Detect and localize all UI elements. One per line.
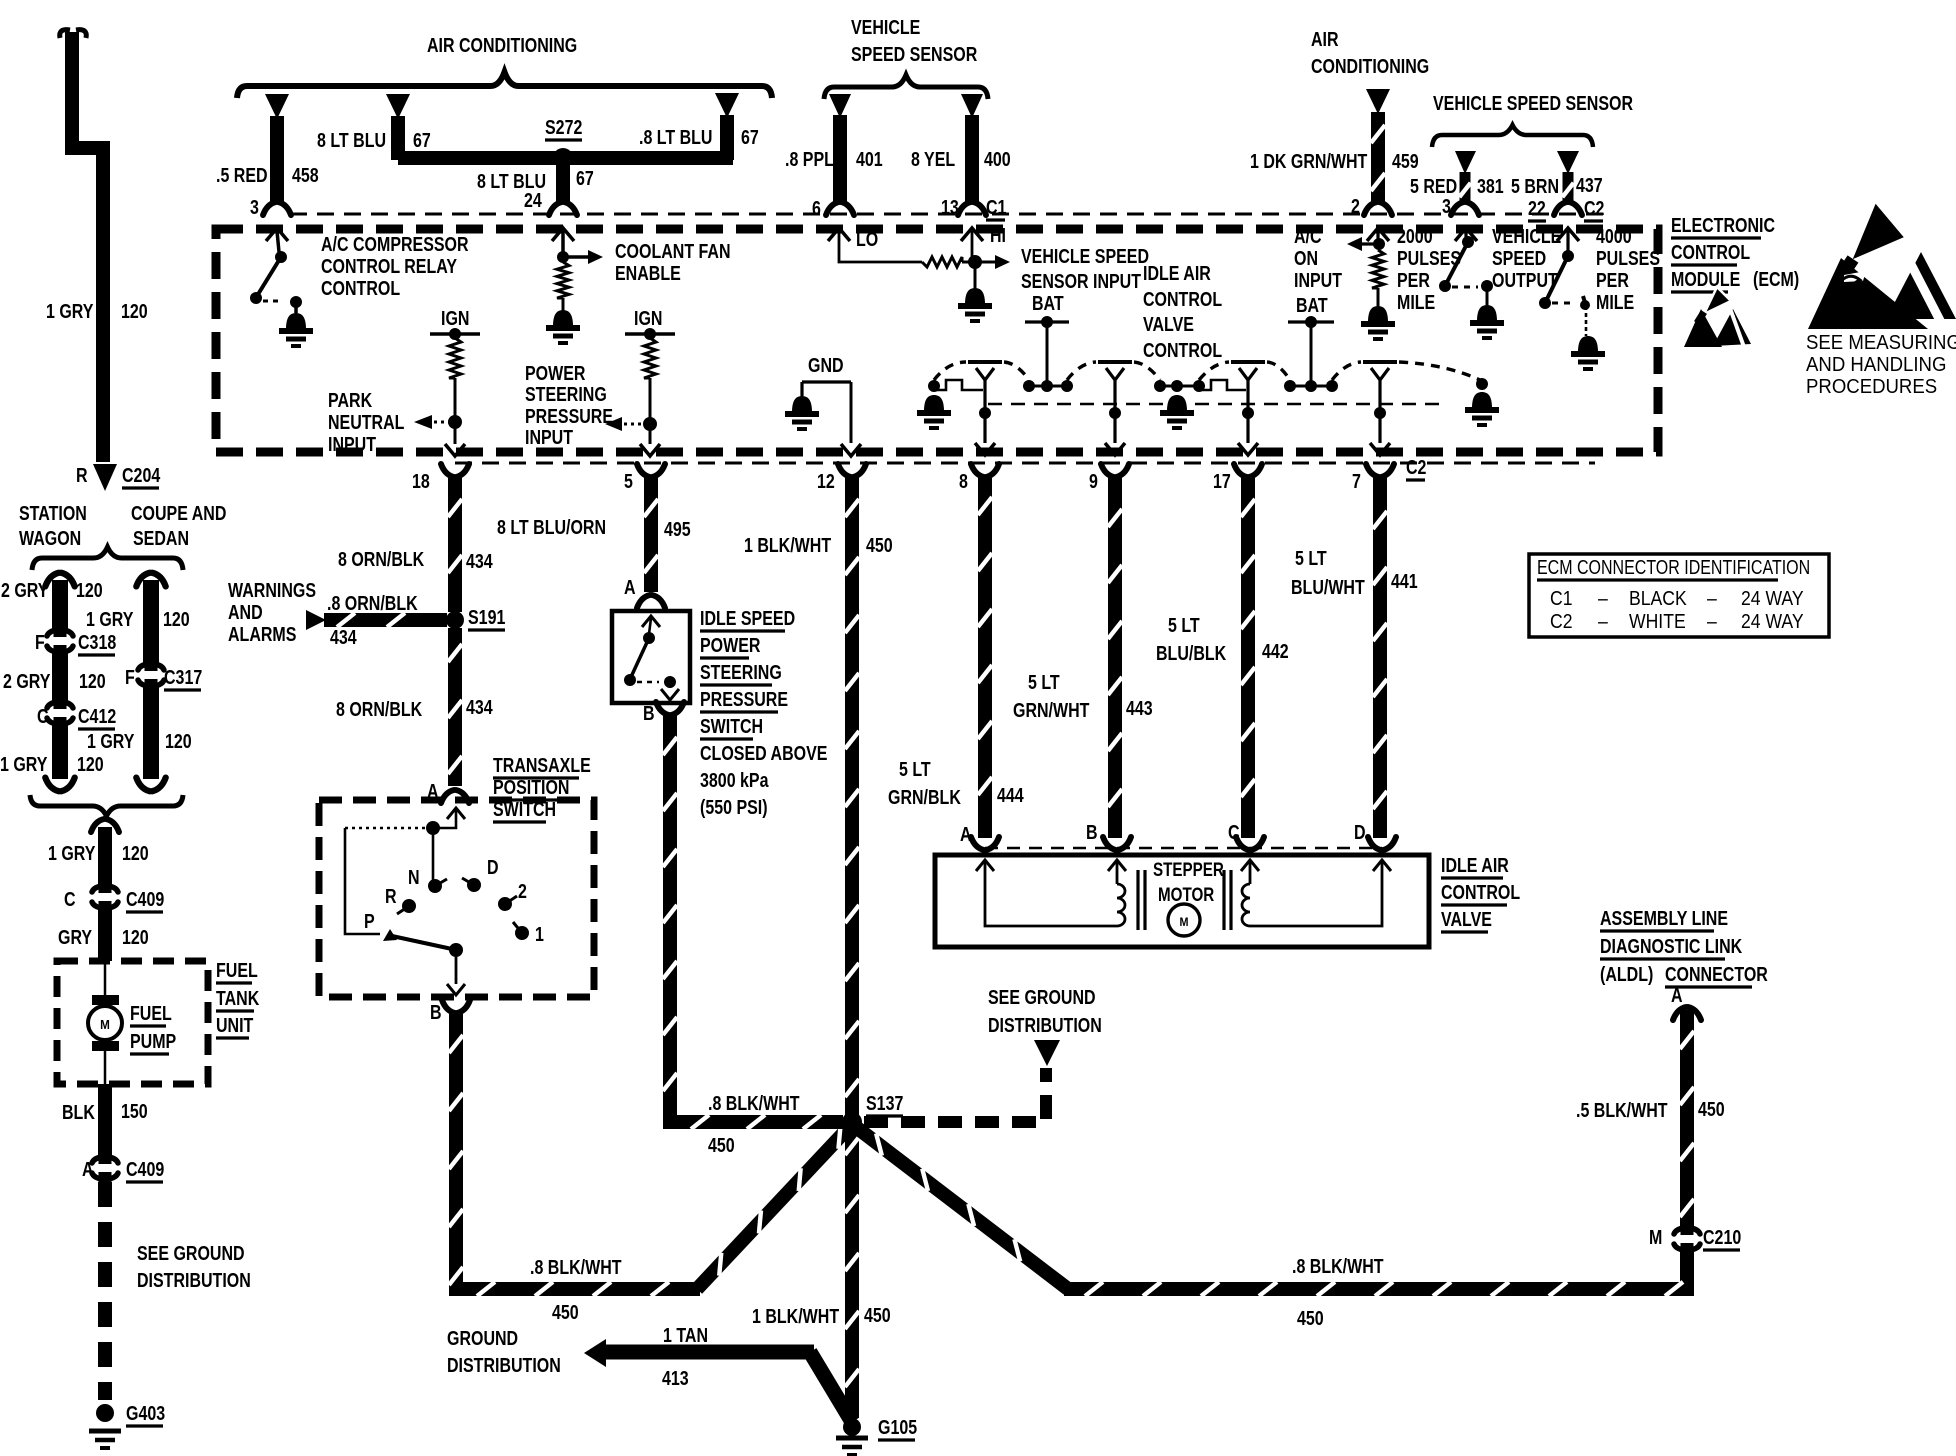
label WARNINGS AND ALARMS	[228, 579, 316, 645]
svg-text:BAT: BAT	[1296, 294, 1328, 316]
wire 1 GRY 120 below C317	[87, 686, 192, 791]
svg-text:VEHICLE: VEHICLE	[1492, 225, 1561, 247]
svg-text:120: 120	[122, 926, 149, 948]
svg-text:C2: C2	[1550, 610, 1572, 632]
svg-text:459: 459	[1392, 150, 1419, 172]
svg-text:120: 120	[79, 670, 106, 692]
svg-text:.8 LT BLU: .8 LT BLU	[639, 126, 712, 148]
label SEE MEASURING AND HANDLING PROCEDURES	[1806, 332, 1956, 398]
svg-text:SEDAN: SEDAN	[133, 527, 189, 549]
svg-text:18: 18	[412, 470, 430, 492]
ECM pin 9 connector	[1089, 464, 1129, 492]
ECM connector identification table	[1529, 554, 1829, 637]
ESD symbol large with hand	[1808, 200, 1956, 334]
pin 13 connector C1	[958, 196, 1006, 220]
svg-text:5: 5	[624, 470, 633, 492]
svg-text:(550 PSI): (550 PSI)	[700, 796, 768, 818]
svg-text:R: R	[385, 885, 397, 907]
wire 8 LT BLU 67 to pin 24	[477, 160, 594, 211]
svg-text:MILE: MILE	[1596, 291, 1634, 313]
svg-text:A: A	[1671, 984, 1683, 1006]
svg-text:PER: PER	[1596, 269, 1629, 291]
hatched wire 8 ORN/BLK 434 pin18 to S191	[338, 478, 493, 612]
svg-text:GRY: GRY	[58, 926, 92, 948]
label C2 at pin 7	[1406, 456, 1426, 480]
connector C412	[37, 698, 116, 729]
svg-text:8 YEL: 8 YEL	[911, 148, 955, 170]
svg-text:1 TAN: 1 TAN	[663, 1324, 708, 1346]
svg-text:OUTPUT: OUTPUT	[1492, 269, 1558, 291]
label POWER STEERING PRESSURE INPUT	[525, 362, 613, 448]
svg-text:TANK: TANK	[216, 987, 259, 1009]
svg-text:67: 67	[576, 167, 594, 189]
label FUEL PUMP	[130, 1002, 176, 1054]
svg-text:1 GRY: 1 GRY	[48, 842, 95, 864]
svg-text:LO: LO	[856, 228, 878, 250]
svg-text:CONTROL: CONTROL	[321, 277, 400, 299]
hatched wire .8 BLK/WHT 450 S137 to C210	[852, 1124, 1687, 1329]
svg-text:GROUND: GROUND	[447, 1327, 518, 1349]
svg-text:1: 1	[535, 923, 544, 945]
svg-text:.8 BLK/WHT: .8 BLK/WHT	[1292, 1255, 1384, 1277]
svg-text:IGN: IGN	[441, 307, 469, 329]
label VEHICLE SPEED SENSOR INPUT	[1021, 245, 1149, 292]
label A/C ON INPUT	[1294, 225, 1342, 291]
hatched wire 5 LT GRN/BLK 444	[888, 478, 1024, 838]
hatched wire .8 BLK/WHT 450 transaxle B to S137	[449, 1014, 852, 1323]
fuel tank unit dashed box	[57, 961, 208, 1084]
wire 1 TAN 413 to G105	[584, 1324, 852, 1422]
svg-text:CONTROL: CONTROL	[1143, 288, 1222, 310]
label IDLE AIR CONTROL VALVE	[1441, 854, 1520, 932]
svg-text:WHITE: WHITE	[1629, 610, 1686, 632]
label 1 GRY 120 upper coupe wire	[86, 608, 190, 630]
svg-text:ALARMS: ALARMS	[228, 623, 296, 645]
brace air conditioning	[237, 72, 772, 98]
svg-text:INPUT: INPUT	[328, 433, 376, 455]
svg-text:67: 67	[413, 129, 431, 151]
svg-text:UNIT: UNIT	[216, 1014, 253, 1036]
ALDL A connector	[1671, 984, 1701, 1020]
hatched wire .5 BLK/WHT 450 ALDL to C210	[1576, 1010, 1725, 1228]
svg-text:5 BRN: 5 BRN	[1511, 175, 1559, 197]
brace vehicle speed sensor right	[1432, 125, 1593, 147]
svg-text:.8 BLK/WHT: .8 BLK/WHT	[708, 1092, 800, 1114]
svg-text:IDLE AIR: IDLE AIR	[1441, 854, 1509, 876]
ECM pin 18 connector	[412, 464, 469, 492]
connector C210	[1649, 1224, 1741, 1254]
pin 3 connector C2 right	[1451, 202, 1479, 215]
svg-text:PROCEDURES: PROCEDURES	[1806, 376, 1937, 398]
wire 1 GRY 120 from top to C204	[46, 30, 148, 462]
hatched wire 5 LT GRN/WHT 443	[1013, 478, 1153, 838]
svg-text:MOTOR: MOTOR	[1158, 883, 1215, 905]
svg-text:C2: C2	[1584, 197, 1604, 219]
label AIR CONDITIONING right	[1311, 28, 1429, 77]
svg-text:VEHICLE SPEED: VEHICLE SPEED	[1021, 245, 1149, 267]
splice S191	[446, 606, 505, 630]
ECM connector face dashed line top	[290, 213, 1610, 216]
svg-text:SPEED: SPEED	[1492, 247, 1546, 269]
pin 24 connector	[549, 202, 577, 215]
svg-text:F: F	[35, 631, 45, 653]
stepper motor box	[935, 855, 1429, 947]
label COOLANT FAN ENABLE	[615, 240, 731, 284]
svg-text:4000: 4000	[1596, 225, 1632, 247]
svg-text:M: M	[100, 1017, 110, 1032]
svg-text:CLOSED ABOVE: CLOSED ABOVE	[700, 742, 827, 764]
svg-text:POSITION: POSITION	[493, 776, 569, 798]
svg-text:12: 12	[817, 470, 835, 492]
svg-text:434: 434	[330, 626, 357, 648]
arrow + wire .8 PPL 401	[785, 94, 883, 219]
svg-text:(ALDL): (ALDL)	[1600, 963, 1653, 985]
label SEE GROUND DISTRIBUTION left	[137, 1242, 251, 1291]
svg-text:3800 kPa: 3800 kPa	[700, 769, 769, 791]
svg-text:PRESSURE: PRESSURE	[700, 688, 788, 710]
svg-text:–: –	[1707, 587, 1717, 609]
hatched wire 5 LT BLU/WHT 441	[1291, 478, 1418, 838]
svg-text:–: –	[1598, 587, 1608, 609]
svg-text:120: 120	[165, 730, 192, 752]
svg-text:GRN/WHT: GRN/WHT	[1013, 699, 1089, 721]
svg-text:PULSES: PULSES	[1596, 247, 1660, 269]
ESD symbol small	[1684, 287, 1751, 347]
svg-text:8 ORN/BLK: 8 ORN/BLK	[336, 698, 422, 720]
svg-text:COUPE AND: COUPE AND	[131, 502, 226, 524]
A/C on input driver	[1347, 228, 1395, 339]
hatched wire .8 BLK/WHT 450 to S137	[663, 716, 843, 1156]
svg-text:413: 413	[662, 1367, 689, 1389]
svg-text:PRESSURE: PRESSURE	[525, 405, 613, 427]
svg-text:437: 437	[1576, 174, 1603, 196]
warnings and alarms arrow wire .8 ORN/BLK 434	[306, 592, 447, 648]
pin 22 connector C2	[1554, 197, 1604, 221]
hatched wire 8 ORN/BLK 434 S191 to transaxle A	[336, 628, 493, 786]
svg-text:22: 22	[1528, 197, 1546, 219]
IAC arc left end with bell ground	[917, 362, 983, 428]
svg-text:444: 444	[997, 784, 1024, 806]
label PARK NEUTRAL INPUT	[328, 389, 404, 455]
svg-text:1 BLK/WHT: 1 BLK/WHT	[744, 534, 831, 556]
svg-text:BLK: BLK	[62, 1101, 95, 1123]
svg-text:9: 9	[1089, 470, 1098, 492]
svg-text:C409: C409	[126, 888, 164, 910]
transaxle A connector	[427, 780, 469, 803]
svg-text:1 GRY: 1 GRY	[86, 608, 133, 630]
idle speed switch A connector	[624, 576, 665, 608]
IAC arc 17-7 with BAT	[1267, 294, 1361, 392]
svg-text:SEE MEASURING: SEE MEASURING	[1806, 332, 1956, 354]
svg-text:6: 6	[812, 197, 821, 219]
svg-text:GRN/BLK: GRN/BLK	[888, 786, 961, 808]
GND internal ground	[785, 354, 861, 456]
svg-text:AIR CONDITIONING: AIR CONDITIONING	[427, 34, 577, 56]
svg-text:S191: S191	[468, 606, 505, 628]
svg-text:AND HANDLING: AND HANDLING	[1806, 354, 1946, 376]
bus wire to S272	[398, 151, 733, 165]
svg-text:SPEED SENSOR: SPEED SENSOR	[851, 43, 977, 65]
svg-text:INPUT: INPUT	[525, 426, 573, 448]
svg-text:.8 ORN/BLK: .8 ORN/BLK	[327, 592, 418, 614]
stepper motor M circle	[1153, 858, 1224, 936]
ECM connector face dashed line bottom	[455, 462, 1595, 465]
svg-text:TRANSAXLE: TRANSAXLE	[493, 754, 591, 776]
svg-text:A/C COMPRESSOR: A/C COMPRESSOR	[321, 233, 469, 255]
IAC valve connector A	[960, 823, 999, 850]
label FUEL TANK UNIT	[216, 959, 259, 1038]
IAC driver pin 8	[968, 362, 1002, 455]
svg-text:2: 2	[518, 880, 527, 902]
svg-text:PUMP: PUMP	[130, 1030, 176, 1052]
pin 3 connector C1	[263, 202, 291, 215]
ECM dashed box	[216, 229, 1658, 452]
svg-text:1 DK GRN/WHT: 1 DK GRN/WHT	[1250, 150, 1367, 172]
svg-text:DISTRIBUTION: DISTRIBUTION	[137, 1269, 251, 1291]
svg-text:67: 67	[741, 126, 759, 148]
svg-text:B: B	[643, 702, 655, 724]
power steering pressure input IGN resistor	[605, 307, 675, 456]
svg-text:120: 120	[163, 608, 190, 630]
svg-text:CONTROL RELAY: CONTROL RELAY	[321, 255, 457, 277]
label COUPE AND SEDAN	[131, 502, 226, 549]
arrow + wire 5 BRN 437	[1511, 151, 1603, 221]
svg-text:C: C	[64, 888, 76, 910]
svg-text:1 GRY: 1 GRY	[0, 753, 47, 775]
svg-text:8 LT BLU: 8 LT BLU	[317, 129, 386, 151]
label A/C COMPRESSOR CONTROL RELAY CONTROL	[321, 233, 469, 299]
svg-text:–: –	[1598, 610, 1608, 632]
svg-text:C412: C412	[78, 705, 116, 727]
connector C317	[125, 660, 202, 690]
wire 1 GRY 120 to C409	[48, 819, 149, 888]
label GROUND DISTRIBUTION	[447, 1327, 561, 1376]
svg-text:SEE GROUND: SEE GROUND	[988, 986, 1096, 1008]
svg-text:1 BLK/WHT: 1 BLK/WHT	[752, 1305, 839, 1327]
label IDLE SPEED POWER STEERING PRESSURE SWITCH	[700, 607, 827, 818]
connector C409 upper	[64, 882, 164, 912]
svg-text:IGN: IGN	[634, 307, 662, 329]
transaxle switch contacts	[345, 808, 544, 995]
svg-text:8: 8	[959, 470, 968, 492]
svg-text:ON: ON	[1294, 247, 1318, 269]
svg-text:5 LT: 5 LT	[899, 758, 931, 780]
svg-text:C1: C1	[1550, 587, 1572, 609]
svg-text:8 ORN/BLK: 8 ORN/BLK	[338, 548, 424, 570]
svg-text:GND: GND	[808, 354, 844, 376]
svg-text:442: 442	[1262, 640, 1289, 662]
label .8 LT BLU 67	[639, 126, 759, 148]
svg-text:ECM CONNECTOR IDENTIFICATION: ECM CONNECTOR IDENTIFICATION	[1537, 556, 1810, 578]
wire GRY 120 to fuel tank	[58, 909, 149, 961]
wire 2 GRY 120 station wagon branch	[1, 573, 103, 630]
hatched wire 5 LT BLU/BLK 442	[1156, 478, 1289, 838]
IAC driver pin 9	[1098, 362, 1132, 455]
label AIR CONDITIONING	[427, 34, 577, 56]
svg-text:VEHICLE: VEHICLE	[851, 16, 920, 38]
svg-text:G105: G105	[878, 1416, 917, 1438]
svg-text:DISTRIBUTION: DISTRIBUTION	[447, 1354, 561, 1376]
arrow to A/C + wire .5 RED 458	[216, 94, 319, 218]
svg-text:A: A	[624, 576, 636, 598]
svg-text:C409: C409	[126, 1158, 164, 1180]
svg-text:POWER: POWER	[700, 634, 760, 656]
svg-text:450: 450	[708, 1134, 735, 1156]
svg-text:BLU/BLK: BLU/BLK	[1156, 642, 1226, 664]
svg-text:B: B	[430, 1001, 442, 1023]
svg-text:S137: S137	[866, 1092, 903, 1114]
vehicle speed sensor input LO HI network	[828, 224, 1010, 321]
fuel pump motor M	[88, 961, 122, 1084]
IAC arc 9-17 with bell ground	[1134, 362, 1246, 428]
park neutral input IGN resistor	[414, 307, 480, 456]
svg-text:D: D	[487, 856, 499, 878]
svg-text:120: 120	[122, 842, 149, 864]
IAC driver pin 17	[1231, 362, 1265, 455]
IAC arc 8-9 with BAT	[1004, 292, 1096, 392]
svg-text:SWITCH: SWITCH	[700, 715, 763, 737]
wire 2 GRY 120 below C318	[3, 652, 106, 703]
svg-text:C210: C210	[1703, 1226, 1741, 1248]
svg-text:C: C	[37, 705, 49, 727]
svg-text:STATION: STATION	[19, 502, 87, 524]
dashed wire S137 to ground distribution arrow	[864, 1040, 1060, 1122]
svg-text:CONDITIONING: CONDITIONING	[1311, 55, 1429, 77]
svg-text:AND: AND	[228, 601, 263, 623]
arrow + wire 8 YEL 400	[911, 94, 1011, 218]
svg-text:450: 450	[1297, 1307, 1324, 1329]
A/C compressor control relay switch	[250, 228, 313, 346]
svg-text:120: 120	[76, 579, 103, 601]
svg-text:VALVE: VALVE	[1143, 313, 1194, 335]
svg-text:401: 401	[856, 148, 883, 170]
label SEE GROUND DISTRIBUTION middle	[988, 986, 1102, 1036]
svg-text:495: 495	[664, 518, 691, 540]
svg-text:2 GRY: 2 GRY	[1, 579, 48, 601]
ECM pin 17 connector	[1213, 464, 1262, 492]
svg-text:434: 434	[466, 696, 493, 718]
svg-text:450: 450	[552, 1301, 579, 1323]
arrow + wire 5 RED 381	[1410, 151, 1504, 217]
ECM pin 12 connector	[817, 464, 866, 492]
svg-text:BAT: BAT	[1032, 292, 1064, 314]
svg-text:ENABLE: ENABLE	[615, 262, 681, 284]
svg-text:150: 150	[121, 1100, 148, 1122]
svg-text:MODULE: MODULE	[1671, 268, 1740, 290]
svg-text:.5 RED: .5 RED	[216, 164, 268, 186]
svg-text:.5 BLK/WHT: .5 BLK/WHT	[1576, 1099, 1668, 1121]
svg-text:PARK: PARK	[328, 389, 372, 411]
brace station wagon / coupe and sedan	[32, 547, 183, 570]
ground G105	[836, 1416, 917, 1455]
svg-text:120: 120	[77, 753, 104, 775]
svg-text:HI: HI	[990, 224, 1006, 246]
ground G403	[89, 1402, 165, 1448]
svg-text:C204: C204	[122, 464, 160, 486]
svg-text:SEE GROUND: SEE GROUND	[137, 1242, 245, 1264]
svg-text:INPUT: INPUT	[1294, 269, 1342, 291]
label TRANSAXLE POSITION SWITCH	[493, 754, 591, 822]
ECM pin 7 connector	[1352, 464, 1394, 492]
svg-text:24 WAY: 24 WAY	[1741, 587, 1804, 609]
svg-text:C317: C317	[164, 666, 202, 688]
svg-text:FUEL: FUEL	[130, 1002, 172, 1024]
IAC valve connector C	[1228, 821, 1264, 850]
arrow + wire right A/C branch	[715, 93, 739, 160]
svg-text:ELECTRONIC: ELECTRONIC	[1671, 214, 1775, 236]
svg-text:450: 450	[866, 534, 893, 556]
svg-text:400: 400	[984, 148, 1011, 170]
svg-text:G403: G403	[126, 1402, 165, 1424]
brace merge to fuel tank wire	[30, 795, 183, 816]
label VEHICLE SPEED SENSOR right	[1433, 92, 1633, 114]
label ELECTRONIC CONTROL MODULE (ECM)	[1671, 214, 1799, 292]
svg-text:120: 120	[121, 300, 148, 322]
4000 pulses per mile switch	[1539, 228, 1605, 369]
svg-text:ASSEMBLY LINE: ASSEMBLY LINE	[1600, 907, 1728, 929]
svg-text:7: 7	[1352, 470, 1361, 492]
wire 1 GRY 120 below C412	[0, 724, 104, 791]
coolant fan enable driver	[546, 228, 603, 343]
svg-text:(ECM): (ECM)	[1753, 268, 1799, 290]
svg-text:AIR: AIR	[1311, 28, 1339, 50]
svg-text:C2: C2	[1406, 456, 1426, 478]
svg-text:3: 3	[250, 196, 259, 218]
svg-text:A/C: A/C	[1294, 225, 1322, 247]
pin 6 connector	[826, 202, 854, 215]
svg-text:CONTROL: CONTROL	[1143, 339, 1222, 361]
svg-text:381: 381	[1477, 175, 1504, 197]
connector C204 arrow	[76, 464, 160, 491]
splice S272	[545, 116, 582, 168]
svg-text:WAGON: WAGON	[19, 527, 81, 549]
wire coupe and sedan branch	[136, 573, 165, 664]
svg-text:D: D	[1354, 821, 1366, 843]
transaxle position switch dashed box	[319, 800, 594, 997]
dashed wire to ground distribution	[98, 1182, 112, 1400]
svg-text:M: M	[1179, 917, 1188, 930]
svg-text:2 GRY: 2 GRY	[3, 670, 50, 692]
hatched wire 8 LT BLU/ORN 495	[497, 478, 691, 592]
svg-text:PULSES: PULSES	[1397, 247, 1461, 269]
svg-text:A: A	[82, 1158, 94, 1180]
connector C318	[35, 626, 116, 656]
svg-text:CONTROL: CONTROL	[1671, 241, 1750, 263]
label VEHICLE SPEED SENSOR left	[851, 16, 977, 65]
idle speed power steering pressure switch box	[612, 611, 690, 703]
ECM pin 8 connector	[959, 464, 999, 492]
svg-text:POWER: POWER	[525, 362, 585, 384]
svg-text:VEHICLE SPEED SENSOR: VEHICLE SPEED SENSOR	[1433, 92, 1633, 114]
label IDLE AIR CONTROL VALVE CONTROL	[1143, 262, 1222, 361]
vehicle speed output switch	[1439, 228, 1504, 338]
svg-text:DISTRIBUTION: DISTRIBUTION	[988, 1014, 1102, 1036]
label VEHICLE SPEED OUTPUT	[1492, 225, 1561, 291]
label 4000 PULSES PER MILE	[1596, 225, 1660, 313]
svg-text:BLU/WHT: BLU/WHT	[1291, 576, 1365, 598]
IAC valve connector D	[1354, 821, 1396, 850]
svg-text:P: P	[364, 910, 375, 932]
svg-text:5 RED: 5 RED	[1410, 175, 1457, 197]
stepper motor windings	[976, 860, 1391, 930]
svg-text:IDLE AIR: IDLE AIR	[1143, 262, 1211, 284]
svg-text:443: 443	[1126, 697, 1153, 719]
IAC driver pin 7	[1363, 362, 1397, 455]
svg-text:SENSOR INPUT: SENSOR INPUT	[1021, 270, 1141, 292]
ECM pin 5 connector	[624, 464, 665, 492]
svg-text:450: 450	[864, 1304, 891, 1326]
svg-text:COOLANT FAN: COOLANT FAN	[615, 240, 731, 262]
